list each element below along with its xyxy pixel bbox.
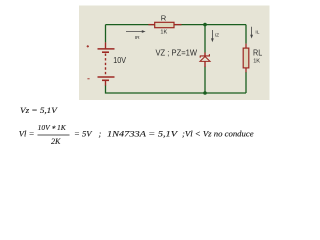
resistor R xyxy=(155,22,174,27)
battery BAT1 pin top xyxy=(105,42,107,48)
battery minus mark xyxy=(87,78,89,80)
zener pin bottom xyxy=(204,61,206,67)
wire bottom rail xyxy=(106,85,247,93)
junction node bottom xyxy=(203,91,207,95)
svg-text:Vl =: Vl = xyxy=(19,129,35,139)
current arrow IZ xyxy=(211,30,214,42)
schematic panel background xyxy=(79,6,270,101)
fraction bar xyxy=(38,134,70,136)
svg-text:RL: RL xyxy=(253,48,262,58)
battery cell 2 short plate xyxy=(102,79,109,81)
svg-text:= 5V: = 5V xyxy=(74,129,93,139)
battery cell 1 long plate xyxy=(98,48,115,50)
resistor R1 pin left xyxy=(148,24,155,26)
svg-text:R: R xyxy=(161,13,167,22)
svg-text:IZ: IZ xyxy=(215,33,219,39)
svg-text:Vz = 5,1V: Vz = 5,1V xyxy=(20,106,58,115)
svg-text:1K: 1K xyxy=(160,29,167,35)
svg-text:2K: 2K xyxy=(51,137,61,146)
svg-text:;Vl < Vz no conduce: ;Vl < Vz no conduce xyxy=(182,130,254,139)
zener anode triangle xyxy=(200,57,210,62)
current arrow IR xyxy=(126,30,146,33)
svg-text:1K: 1K xyxy=(253,59,260,65)
zener cathode bar with ticks xyxy=(200,54,210,58)
wire top rail xyxy=(106,24,247,26)
wire zener branch upper xyxy=(204,25,206,53)
svg-text:IL: IL xyxy=(255,30,259,36)
resistor RL xyxy=(243,48,249,68)
battery pin bottom xyxy=(105,81,107,86)
junction node top xyxy=(203,23,207,27)
battery cell 1 short plate xyxy=(102,51,109,53)
resistor RL pin top xyxy=(245,44,247,49)
resistor RL pin bottom xyxy=(245,68,247,73)
battery dashed link xyxy=(105,54,107,77)
current arrow IL xyxy=(250,27,253,39)
battery plus mark xyxy=(87,45,89,47)
svg-text:IR: IR xyxy=(135,35,140,41)
svg-text:10V: 10V xyxy=(113,56,126,65)
wire right branch upper xyxy=(245,25,247,44)
zener diode D1 pin top xyxy=(204,53,206,56)
battery cell 2 long plate xyxy=(98,76,115,78)
svg-text:10V ∗ 1K: 10V ∗ 1K xyxy=(38,123,67,132)
resistor R1 pin right xyxy=(174,24,182,26)
svg-text:;: ; xyxy=(99,129,102,139)
wire right branch lower xyxy=(245,72,247,93)
wire zener branch lower xyxy=(204,67,206,94)
svg-text:1N4733A = 5,1V: 1N4733A = 5,1V xyxy=(107,130,178,139)
wire left branch xyxy=(105,25,107,43)
svg-text:VZ ; PZ=1W: VZ ; PZ=1W xyxy=(156,49,198,58)
